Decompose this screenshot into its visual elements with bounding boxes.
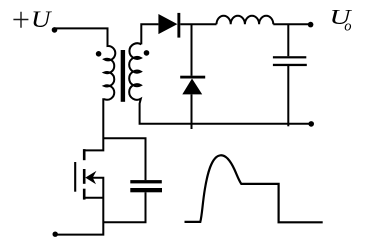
svg-text:U: U bbox=[31, 7, 52, 32]
svg-text:o: o bbox=[344, 18, 351, 34]
